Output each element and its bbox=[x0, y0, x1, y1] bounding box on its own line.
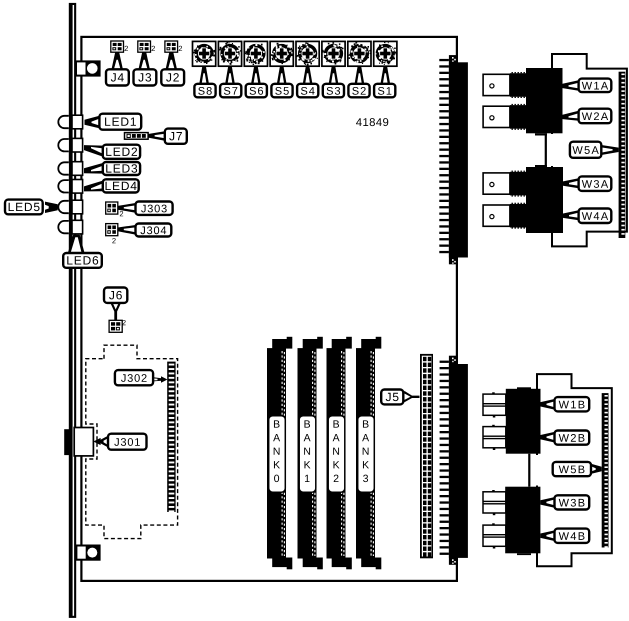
rotary switch S8 bbox=[192, 41, 215, 66]
callout J301 bbox=[93, 434, 146, 450]
bracket screw tab top bbox=[76, 61, 100, 75]
rotary switch S2 bbox=[348, 41, 371, 66]
callout W4A bbox=[563, 209, 611, 224]
LED LED2 body bbox=[58, 138, 82, 152]
connector block B lower bbox=[505, 487, 540, 555]
callout J4 bbox=[106, 52, 129, 85]
callout J303 bbox=[118, 202, 173, 215]
connector block A lower bbox=[526, 165, 563, 233]
callout S3 bbox=[323, 66, 344, 97]
SIMM socket BANK3 bbox=[356, 337, 381, 570]
SIMM socket BANK2 bbox=[327, 337, 352, 570]
edge connector P2 teeth bbox=[440, 361, 449, 555]
callout W3A bbox=[563, 176, 611, 191]
silkscreen text 41849 bbox=[356, 118, 388, 126]
connector W3B plug bbox=[483, 490, 506, 515]
connector J301 bbox=[64, 428, 93, 456]
bracket A outline bbox=[552, 54, 627, 246]
callout S6 bbox=[246, 66, 267, 97]
LED LED3 body bbox=[58, 162, 82, 176]
gap cover between A blocks bbox=[550, 134, 556, 166]
connector block B upper bbox=[506, 387, 541, 453]
edge connector P2 body bbox=[449, 356, 468, 565]
SIMM socket BANK1 bbox=[298, 337, 323, 570]
jumper J2 icon bbox=[165, 41, 182, 52]
callout S8 bbox=[194, 66, 215, 97]
callout LED3 bbox=[84, 162, 140, 175]
connector W2B plug bbox=[483, 425, 506, 450]
callout J304 bbox=[118, 224, 172, 237]
connector block A upper bbox=[526, 68, 563, 136]
callout LED6 bbox=[63, 235, 102, 268]
callout S4 bbox=[297, 66, 318, 97]
callout W4B bbox=[540, 529, 589, 543]
rotary switch S5 bbox=[270, 41, 293, 66]
callout J2 bbox=[161, 52, 184, 85]
callout W1B bbox=[541, 397, 590, 411]
callout S5 bbox=[271, 66, 292, 97]
callout W5B bbox=[553, 462, 602, 476]
board outline bbox=[81, 37, 457, 581]
callout W2A bbox=[563, 109, 612, 124]
callout LED4 bbox=[84, 179, 139, 192]
callout W2B bbox=[541, 431, 590, 445]
SIMM socket BANK0 bbox=[267, 337, 292, 570]
wire between B blocks bbox=[528, 454, 530, 487]
LED LED1 body bbox=[58, 115, 82, 129]
header J302 strip bbox=[167, 362, 175, 513]
wire between A blocks bbox=[545, 133, 547, 167]
header J5 grid bbox=[420, 354, 433, 558]
callout S1 bbox=[374, 66, 395, 97]
LED LED4 body bbox=[58, 180, 82, 194]
callout W5A bbox=[570, 142, 619, 158]
terminal W4A plug bbox=[483, 203, 528, 229]
connector W4B plug bbox=[483, 523, 506, 548]
connector strip B bbox=[602, 393, 609, 548]
callout J5 bbox=[381, 390, 419, 405]
daughter card dashed outline bbox=[86, 345, 178, 538]
callout J302 bbox=[115, 370, 167, 385]
callout W1A bbox=[563, 79, 612, 93]
rotary switch S1 bbox=[374, 41, 397, 66]
callout LED2 bbox=[84, 145, 140, 159]
callout LED5 bbox=[5, 200, 58, 215]
LED LED6 body bbox=[58, 220, 82, 234]
rotary switch S4 bbox=[296, 41, 319, 66]
bracket screw tab bottom bbox=[76, 546, 99, 560]
connector strip A bbox=[619, 72, 626, 238]
jumper J6 icon bbox=[109, 320, 126, 332]
bracket B outline bbox=[537, 374, 612, 566]
jumper J304 icon bbox=[106, 224, 118, 244]
LED LED5 body bbox=[58, 200, 82, 214]
jumper J3 icon bbox=[138, 41, 155, 52]
callout J3 bbox=[134, 52, 157, 85]
header J7 icon bbox=[125, 133, 149, 140]
jumper J4 icon bbox=[111, 41, 128, 52]
callout J7 bbox=[148, 129, 187, 144]
edge connector P1 teeth bbox=[439, 59, 449, 253]
rotary switch S7 bbox=[218, 41, 241, 66]
edge connector P1 body bbox=[449, 55, 468, 264]
callout S7 bbox=[220, 66, 241, 97]
mounting bracket bbox=[69, 3, 76, 618]
terminal W3A plug bbox=[483, 171, 528, 197]
rotary switch S3 bbox=[322, 41, 345, 66]
jumper J303 icon bbox=[106, 202, 123, 216]
callout J6 bbox=[104, 288, 127, 321]
terminal W2A plug bbox=[483, 104, 528, 130]
callout LED1 bbox=[85, 114, 142, 130]
connector W1B plug bbox=[483, 392, 506, 417]
terminal W1A plug bbox=[483, 72, 528, 98]
rotary switch S6 bbox=[244, 41, 267, 66]
callout S2 bbox=[348, 66, 369, 97]
callout W3B bbox=[540, 495, 589, 509]
gap cover between B blocks bbox=[534, 455, 540, 486]
